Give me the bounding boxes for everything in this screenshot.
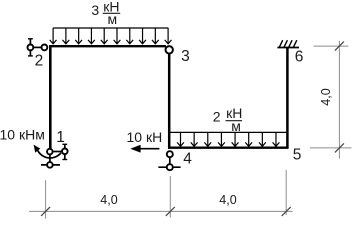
svg-text:5: 5 (293, 146, 302, 163)
svg-text:3: 3 (91, 2, 99, 18)
svg-text:4,0: 4,0 (219, 193, 236, 207)
svg-text:4,0: 4,0 (319, 88, 333, 105)
svg-text:4: 4 (183, 150, 192, 167)
svg-text:10 кНм: 10 кНм (0, 127, 45, 143)
svg-text:1: 1 (56, 129, 65, 146)
svg-text:4,0: 4,0 (100, 193, 117, 207)
svg-text:10 кН: 10 кН (127, 129, 163, 145)
svg-text:3: 3 (181, 48, 190, 65)
svg-text:6: 6 (295, 49, 304, 66)
svg-text:2: 2 (35, 53, 44, 70)
svg-text:2: 2 (213, 109, 221, 125)
